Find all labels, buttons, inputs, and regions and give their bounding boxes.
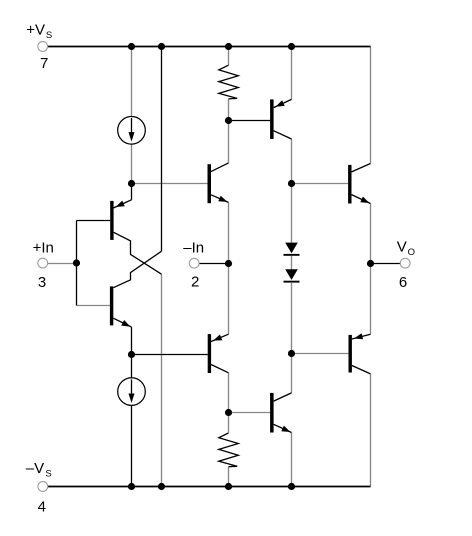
svg-text:S: S — [46, 30, 52, 41]
svg-text:–V: –V — [26, 460, 44, 477]
svg-text:+In: +In — [33, 240, 54, 257]
svg-text:V: V — [397, 239, 407, 256]
svg-text:S: S — [45, 469, 51, 480]
svg-text:7: 7 — [40, 55, 48, 72]
svg-text:+V: +V — [26, 22, 45, 39]
svg-text:3: 3 — [38, 274, 46, 291]
svg-text:–In: –In — [183, 240, 204, 257]
svg-text:O: O — [408, 247, 415, 258]
svg-text:4: 4 — [38, 499, 46, 516]
svg-text:2: 2 — [191, 274, 199, 291]
svg-text:6: 6 — [399, 274, 407, 291]
